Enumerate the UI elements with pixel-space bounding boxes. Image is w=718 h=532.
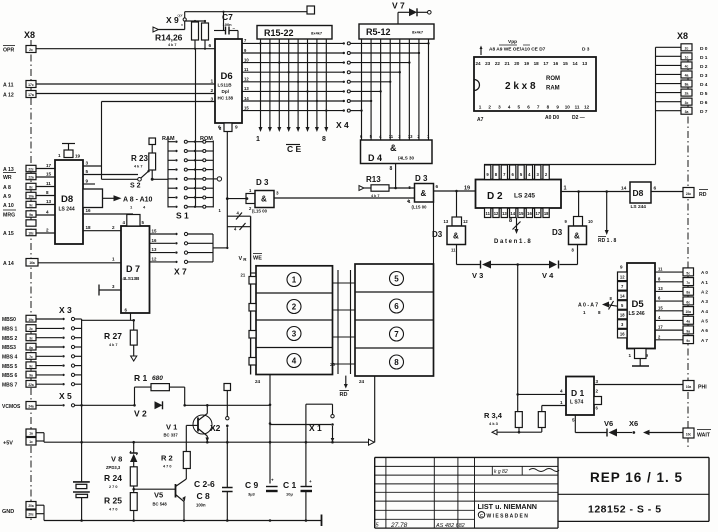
svg-text:22a: 22a (28, 176, 34, 180)
svg-text:17: 17 (658, 325, 663, 330)
svg-text:24: 24 (255, 379, 261, 384)
wire MBS 4 to X3 contact (36, 355, 82, 358)
svg-text:15: 15 (244, 105, 249, 110)
node A11 pad (26, 81, 36, 88)
wires R5-12 to D4 inputs (360, 39, 430, 140)
svg-text:4 k 7: 4 k 7 (371, 194, 379, 198)
svg-text:19: 19 (524, 61, 530, 66)
svg-text:A 2: A 2 (701, 289, 708, 294)
connector X8 left label (24, 30, 35, 40)
svg-text:4: 4 (508, 105, 511, 110)
gate D3 A with inputs from S1 (246, 178, 279, 214)
svg-text:18: 18 (544, 211, 549, 216)
svg-text:9c: 9c (29, 364, 33, 368)
svg-text:20a: 20a (28, 504, 34, 508)
svg-text:1: 1 (629, 353, 632, 358)
svg-text:16: 16 (527, 211, 532, 216)
wire pad to D8 pin 4 (36, 210, 55, 216)
svg-text:+: + (309, 479, 312, 484)
svg-text:15: 15 (46, 172, 52, 177)
wire pull-up rail through S1 (195, 49, 197, 207)
node pad MBS 5 (26, 362, 36, 369)
svg-text:(4LS 30: (4LS 30 (398, 156, 415, 161)
wire pad to D8 pin 11 (36, 181, 55, 187)
diode V4 (542, 261, 559, 281)
svg-text:3a: 3a (685, 110, 689, 114)
svg-text:8: 8 (394, 358, 399, 367)
svg-text:12: 12 (463, 219, 468, 224)
wire D8 pin7 to bracket (83, 197, 101, 203)
svg-text:12: 12 (244, 77, 249, 82)
svg-text:&: & (574, 232, 580, 241)
svg-text:&: & (421, 189, 427, 198)
svg-text:V5: V5 (154, 491, 163, 500)
label A 9 (3, 194, 11, 200)
svg-text:22: 22 (495, 61, 501, 66)
svg-text:8: 8 (390, 166, 393, 172)
svg-text:18: 18 (86, 225, 92, 230)
svg-text:C 9: C 9 (245, 480, 259, 490)
svg-text:12: 12 (494, 211, 499, 216)
svg-text:11: 11 (244, 67, 249, 72)
svg-text:RD: RD (340, 392, 348, 398)
svg-text:16: 16 (553, 61, 559, 66)
wire MBS3 to X3 contact (36, 345, 82, 348)
svg-text:3c: 3c (29, 337, 33, 341)
wire MBS 5 to X3 contact (36, 364, 82, 367)
svg-text:20: 20 (514, 61, 520, 66)
transistor V5 BC548 (153, 469, 187, 521)
svg-text:D8: D8 (61, 194, 73, 205)
svg-text:R13: R13 (366, 175, 381, 184)
svg-text:13: 13 (582, 61, 588, 66)
label GND (2, 509, 14, 515)
svg-text:6: 6 (436, 184, 439, 189)
svg-text:PHI: PHI (698, 385, 707, 391)
svg-text:V 8: V 8 (111, 455, 122, 464)
svg-text:11: 11 (46, 181, 51, 186)
svg-text:10a: 10a (686, 310, 692, 314)
svg-text:24: 24 (359, 379, 365, 384)
wire VCMOS net to V1 (185, 404, 272, 407)
svg-text:V 2: V 2 (134, 409, 147, 419)
svg-text:opr: opr (178, 14, 184, 18)
svg-text:8a: 8a (686, 291, 690, 295)
svg-text:3: 3 (292, 330, 297, 339)
node pad MBS 7 (26, 381, 36, 388)
svg-text:21: 21 (241, 273, 246, 278)
svg-text:9: 9 (86, 179, 89, 184)
svg-text:X6: X6 (629, 419, 638, 428)
node pad MBS3 (26, 343, 36, 350)
svg-text:13: 13 (502, 211, 507, 216)
svg-text:AS 482 682: AS 482 682 (435, 523, 465, 529)
resistor network R15-22 (257, 26, 332, 40)
svg-text:D3: D3 (432, 230, 443, 239)
wire RD-clock net down to D1 R34 (516, 265, 519, 412)
svg-text:6: 6 (527, 105, 530, 110)
svg-text:13: 13 (152, 247, 157, 252)
svg-text:2 k x 8: 2 k x 8 (505, 81, 536, 92)
transceiver U D2 LS245 (476, 180, 562, 209)
svg-text:D 2: D 2 (487, 191, 503, 202)
label RD (699, 190, 708, 199)
diode V2 (134, 401, 163, 418)
svg-text:ROM: ROM (546, 76, 560, 82)
label A 15 (3, 231, 14, 237)
wire D6 rail to D3 A pin2 (226, 132, 228, 248)
svg-text:23: 23 (485, 61, 491, 66)
node +5V pads (26, 429, 36, 445)
node A12 pad (26, 91, 36, 98)
svg-text:15: 15 (152, 229, 157, 234)
svg-text:n: n (181, 23, 183, 27)
svg-text:8: 8 (509, 218, 512, 224)
wire D3 C output to V3 net (457, 245, 481, 265)
node small square top (307, 6, 315, 14)
svg-text:15: 15 (519, 211, 524, 216)
node pad MBS0 (26, 315, 36, 322)
svg-text:A 7: A 7 (701, 338, 708, 343)
svg-text:19: 19 (464, 186, 470, 192)
title text LIST u NIEMANN (478, 502, 538, 511)
enable stub on D8 top (58, 144, 81, 159)
wire bank2 pin24 down (374, 376, 376, 442)
svg-text:HC 138: HC 138 (218, 96, 234, 101)
svg-text:2c: 2c (29, 327, 33, 331)
svg-text:6: 6 (394, 302, 399, 311)
arrow RD under banks (340, 376, 350, 398)
svg-text:11: 11 (485, 211, 490, 216)
svg-text:4: 4 (46, 210, 49, 215)
svg-text:MBS3: MBS3 (2, 345, 16, 351)
wire D8 pin5 to S2 (83, 169, 138, 175)
svg-text:X8: X8 (677, 31, 688, 41)
label WAIT (697, 430, 711, 439)
wire pad to D8 pin 2 (36, 228, 55, 234)
svg-text:10µ: 10µ (286, 492, 293, 497)
handwritten marks title block (376, 469, 560, 530)
stub under D6 (224, 123, 232, 132)
svg-text:13: 13 (408, 134, 413, 139)
svg-text:V: V (239, 256, 243, 262)
capacitors C2-6 C8 (194, 442, 233, 520)
diode V3 (472, 261, 491, 281)
wire D2 pin19 enable (434, 186, 476, 193)
svg-text:11: 11 (658, 267, 663, 272)
svg-text:V 4: V 4 (542, 271, 554, 280)
wire D8 pin3 to A10 net (83, 161, 102, 167)
svg-text:W I E S B A D E N: W I E S B A D E N (487, 513, 529, 519)
svg-text:15: 15 (658, 305, 663, 310)
label MBS 4 (2, 355, 18, 361)
svg-text:A 3: A 3 (701, 299, 708, 304)
wire +5V rail (36, 433, 374, 446)
label +5V (3, 441, 13, 447)
wire D2 pin1 down to D3 D (578, 192, 580, 217)
svg-text:A 0: A 0 (701, 270, 708, 275)
wire D4 pin8 output (390, 164, 397, 190)
label S1 (176, 211, 189, 221)
svg-text:V 3: V 3 (472, 271, 483, 280)
svg-text:REP 16 / 1. 5: REP 16 / 1. 5 (590, 470, 683, 485)
svg-text:RAM: RAM (546, 86, 560, 92)
node pad A 10 X8 left (26, 201, 36, 207)
wire bank1 pin24 down (269, 375, 272, 484)
svg-text:5: 5 (394, 275, 399, 284)
svg-text:4LS13B: 4LS13B (123, 276, 141, 281)
label A11 (3, 83, 14, 89)
svg-text:8: 8 (46, 190, 49, 195)
svg-text:27.78: 27.78 (390, 522, 408, 529)
svg-text:2: 2 (211, 88, 214, 94)
label OPR (3, 46, 15, 54)
connector X3 label (59, 305, 72, 315)
wire D2 pin1 direction net (561, 186, 630, 193)
svg-text:4 7 0: 4 7 0 (163, 465, 171, 469)
gate D3 B near R13 (408, 174, 439, 210)
svg-text:16: 16 (86, 208, 92, 213)
node pad A 9 X8 left (26, 192, 36, 198)
memory bank 1-4 (249, 266, 333, 375)
svg-text:1: 1 (112, 257, 115, 262)
wire GND rail (36, 505, 322, 526)
wire V3 V4 link (491, 263, 550, 266)
label A 10 (3, 203, 14, 209)
svg-text:3µ3: 3µ3 (248, 492, 256, 497)
node pad A 15 X8 left (26, 229, 36, 235)
label VCMOS (2, 404, 21, 410)
wire D8 pin12 to bracket (83, 188, 101, 194)
svg-text:A 12: A 12 (3, 93, 14, 99)
svg-text:9: 9 (235, 125, 238, 131)
label MBS 5 (2, 364, 18, 370)
resistor R13 (359, 175, 415, 198)
svg-text:1: 1 (479, 105, 482, 110)
svg-text:MBS 6: MBS 6 (2, 373, 18, 379)
resistor R3 R4 pair (484, 411, 545, 432)
node pad A 13 X8 left (26, 165, 36, 171)
svg-text:+5V: +5V (3, 441, 13, 447)
svg-text:8x4k7: 8x4k7 (311, 31, 323, 36)
label ROM (200, 136, 213, 142)
bus between banks (330, 270, 355, 374)
wire R34 bottoms with open arrow (492, 430, 542, 435)
wire MBS rail top to D7 pin6 (82, 319, 135, 322)
svg-text:10: 10 (588, 219, 593, 224)
svg-text:2: 2 (488, 105, 491, 110)
svg-text:ROM: ROM (200, 136, 213, 142)
wire pad to D8 pin 17 (36, 163, 55, 169)
svg-text:MBS 1: MBS 1 (2, 327, 18, 333)
svg-text:18: 18 (620, 313, 625, 318)
svg-text:LS 244: LS 244 (631, 204, 647, 210)
label MBS3 (2, 345, 16, 351)
label MBS 2 (2, 336, 18, 342)
wires D7 outputs to X7 (150, 229, 176, 262)
wire D3 B output to D2 pin19 (433, 190, 435, 192)
svg-text:A 0 - A 7: A 0 - A 7 (578, 303, 598, 309)
svg-text:17: 17 (535, 211, 540, 216)
svg-text:Dpl: Dpl (222, 89, 229, 94)
svg-text:A0 D0: A0 D0 (545, 115, 559, 121)
svg-text:R14,26: R14,26 (155, 33, 183, 43)
svg-text:17: 17 (543, 61, 549, 66)
svg-text:2 7 0: 2 7 0 (109, 485, 117, 489)
labels below memory IC (477, 115, 585, 123)
svg-text:1a: 1a (29, 432, 33, 436)
label A12 (3, 93, 14, 99)
label pin24 bank2 (359, 379, 365, 384)
wires X4 to R5-12 pull-ups (350, 42, 429, 112)
memory bank 5-8 (355, 264, 434, 376)
wire A10 select to D6 pin3 (102, 97, 216, 180)
svg-text:D8: D8 (633, 188, 644, 198)
wire OPR to R14 26 net (36, 48, 215, 50)
node pad MRG X8 left (26, 211, 36, 217)
svg-text:6a: 6a (29, 346, 33, 350)
svg-text:10: 10 (565, 105, 571, 110)
node pad MBS 2 (26, 334, 36, 341)
resistor R2 (161, 452, 190, 469)
label MBS0 (2, 317, 16, 323)
svg-text:BC 548: BC 548 (153, 502, 168, 507)
node RD pad (683, 188, 694, 198)
svg-text:4: 4 (560, 389, 563, 394)
wire D3 D output to V4 net (560, 245, 578, 265)
wire pad to D8 pin 13 (36, 199, 55, 205)
svg-text:V6: V6 (604, 419, 613, 428)
svg-text:A 6: A 6 (701, 328, 708, 333)
svg-text:C 1: C 1 (283, 480, 297, 490)
battery cell (73, 482, 90, 521)
svg-text:D 1: D 1 (700, 55, 708, 61)
node A14 pad (26, 259, 38, 267)
svg-text:D 4: D 4 (368, 153, 382, 163)
label CE bus (256, 136, 326, 154)
svg-text:C: C (480, 513, 483, 518)
svg-text:A 10: A 10 (3, 203, 14, 209)
svg-text:&: & (453, 232, 459, 241)
svg-text:X 4: X 4 (336, 120, 349, 130)
svg-text:24: 24 (475, 61, 481, 66)
label PHI (698, 385, 707, 391)
svg-text:R 25: R 25 (104, 496, 122, 506)
node opr circles (178, 12, 187, 30)
wire A11 to D6 pin1 (36, 79, 215, 85)
labels VR WE on bank (239, 254, 263, 278)
wire D2 enable down to D3 C (456, 191, 458, 217)
stub on D7 top (123, 215, 145, 227)
svg-text:100n: 100n (196, 503, 206, 508)
svg-text:C E: C E (287, 144, 302, 154)
svg-text:MBS 7: MBS 7 (2, 382, 18, 388)
buffer U D5 LS245 address (620, 263, 655, 349)
svg-text:D 0: D 0 (700, 46, 708, 52)
svg-text:R 27: R 27 (104, 331, 122, 341)
resistor R24 (104, 467, 137, 493)
capacitor C9 (245, 478, 278, 497)
svg-text:1: 1 (211, 79, 214, 85)
switch S2 (130, 168, 151, 190)
svg-text:22a: 22a (28, 383, 34, 387)
svg-text:R 1: R 1 (134, 373, 148, 383)
svg-text:24c: 24c (686, 192, 692, 196)
svg-text:D 3: D 3 (256, 178, 269, 187)
svg-text:(L1S 00: (L1S 00 (412, 205, 428, 210)
svg-text:RD 1 . 8: RD 1 . 8 (598, 238, 617, 244)
svg-text:12: 12 (152, 256, 157, 261)
svg-text:D2 —: D2 — (572, 115, 585, 121)
svg-text:D 6: D 6 (700, 100, 708, 106)
svg-text:4a: 4a (686, 320, 690, 324)
svg-text:3: 3 (211, 97, 214, 103)
svg-text:LS 246: LS 246 (629, 311, 645, 317)
wire A14 to D7 pin1 (38, 257, 121, 263)
svg-text:9a: 9a (29, 213, 33, 217)
svg-text:1c: 1c (685, 55, 689, 59)
wire MBS0 to X3 contact (36, 317, 82, 320)
connector X1 (306, 404, 334, 442)
svg-text:14: 14 (572, 61, 578, 66)
bus arrow A0-A7 (578, 296, 618, 315)
arrow Daten 1-8 (494, 218, 531, 246)
D1 pin2 stub (594, 389, 602, 411)
label RAM (162, 136, 175, 142)
connector X6 (629, 419, 683, 435)
svg-text:Vpp: Vpp (508, 39, 517, 45)
svg-text:16: 16 (620, 332, 625, 337)
svg-text:128152 - S - 5: 128152 - S - 5 (588, 504, 662, 516)
svg-text:MBS 5: MBS 5 (2, 364, 18, 370)
svg-text:20c: 20c (28, 513, 34, 517)
svg-text:18: 18 (534, 61, 540, 66)
flip-flop U D1 LS74 (566, 377, 594, 416)
svg-text:7c: 7c (29, 355, 33, 359)
svg-text:13: 13 (46, 199, 52, 204)
svg-text:D a t e n 1 . 8: D a t e n 1 . 8 (494, 239, 531, 245)
svg-text:9a: 9a (686, 329, 690, 333)
wire pad to D8 pin 8 (36, 190, 55, 196)
label MBS 1 (2, 327, 18, 333)
svg-text:A 11: A 11 (3, 83, 14, 89)
capacitor C7 (214, 11, 238, 39)
svg-text:X 5: X 5 (59, 391, 72, 401)
svg-text:LS 245: LS 245 (514, 193, 535, 200)
svg-text:6: 6 (654, 186, 657, 192)
svg-text:1: 1 (583, 310, 586, 315)
svg-text:&: & (261, 195, 267, 204)
D5 bottom stub and ground (629, 349, 650, 367)
diode V7 (392, 1, 431, 25)
wire D8 pin9 stub (83, 179, 95, 185)
svg-text:1c: 1c (29, 440, 33, 444)
svg-text:A 9: A 9 (3, 194, 11, 200)
svg-text:9c: 9c (686, 339, 690, 343)
node pad MBS 4 (26, 353, 36, 360)
svg-text:R 2: R 2 (161, 454, 173, 463)
bus arrow A8-A10 (83, 189, 153, 210)
svg-text:D 4: D 4 (700, 82, 708, 88)
svg-text:21: 21 (505, 61, 511, 66)
label A 8 (3, 185, 11, 191)
svg-text:MBS 2: MBS 2 (2, 336, 18, 342)
resistor R1 (133, 373, 186, 407)
wire X9 input with open arrow (153, 27, 185, 32)
wire bank1 to X1 branch (270, 424, 331, 426)
svg-text:3: 3 (498, 105, 501, 110)
svg-text:k g 82: k g 82 (494, 469, 508, 475)
